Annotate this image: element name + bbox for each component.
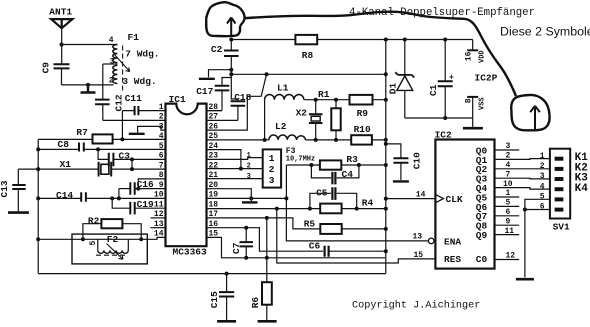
svg-text:C2: C2 <box>211 44 223 55</box>
capacitor C9 <box>54 64 70 85</box>
resistor R1 <box>331 100 340 140</box>
svg-text:5: 5 <box>89 241 98 246</box>
wire C0 stub <box>495 259 520 261</box>
svg-text:13: 13 <box>413 233 423 242</box>
wire R3 row <box>286 164 385 166</box>
svg-text:X2: X2 <box>296 107 308 118</box>
wire Q4 to SV1 pin4 <box>495 188 550 190</box>
svg-text:C5: C5 <box>316 187 328 198</box>
wire IC1 pin12 stub <box>151 217 165 219</box>
svg-text:IC2: IC2 <box>435 130 452 141</box>
hand-drawn arrow in right blob <box>530 106 540 130</box>
svg-text:L2: L2 <box>275 121 287 132</box>
node R4 drop to RES <box>275 207 279 211</box>
svg-text:L1: L1 <box>277 83 289 94</box>
node rail C10 <box>384 142 388 146</box>
wire Q8 stub <box>495 224 520 226</box>
op-amp IC1 MC3363 body <box>166 104 207 247</box>
svg-text:14: 14 <box>416 191 426 200</box>
wire IC1 pin 20 to ground <box>206 189 251 202</box>
power symbol IC2P VSS pin8 <box>467 97 478 127</box>
svg-text:SV1: SV1 <box>553 222 570 233</box>
wire IC1 pin 24 riser <box>206 150 241 169</box>
wire C11 riser to pin4 node <box>121 111 123 140</box>
svg-text:R1: R1 <box>318 89 330 100</box>
wire IC1 pin 15 RES row <box>206 237 385 257</box>
svg-text:Diese 2 Symbole: Diese 2 Symbole <box>500 24 590 38</box>
wire IC1 pin 18 row R4 <box>206 208 386 210</box>
svg-text:CLK: CLK <box>446 194 463 205</box>
capacitor C17 <box>206 86 229 111</box>
node rail CLK <box>384 197 388 201</box>
ENA inverter bubble at IC2 <box>428 238 434 244</box>
ground under R6 <box>258 320 277 323</box>
svg-text:C16: C16 <box>137 179 154 190</box>
node supply C1 <box>443 38 447 42</box>
wire IC1 pin 25 row with L2 <box>206 139 386 141</box>
antenna ANT1 <box>51 19 72 64</box>
node pin19 to ENA drop <box>284 196 288 200</box>
svg-text:10,7MHz: 10,7MHz <box>286 155 315 163</box>
ground at IC1 pin 3 <box>129 133 145 135</box>
node C1 bottom <box>443 116 447 120</box>
crystal X1 <box>18 162 165 177</box>
svg-text:8: 8 <box>159 171 164 180</box>
capacitor C1 electrolytic <box>438 40 453 119</box>
svg-text:C13: C13 <box>0 180 10 197</box>
svg-text:3: 3 <box>540 172 545 181</box>
svg-text:Copyright J.Aichinger: Copyright J.Aichinger <box>352 300 480 312</box>
IC1 pin numbers left 1-14 <box>154 103 164 239</box>
svg-text:C4: C4 <box>342 169 354 180</box>
svg-text:R4: R4 <box>362 198 374 209</box>
svg-text:R5: R5 <box>304 218 316 229</box>
wire supply row with R8 <box>231 39 472 41</box>
wire IC1 pin 2 row <box>103 119 165 121</box>
ground under SV1 <box>516 278 534 281</box>
capacitor C7 <box>240 228 254 258</box>
node pin17 R6 drop <box>265 216 269 220</box>
node rail X1 row <box>36 167 40 171</box>
resistor R7 <box>38 134 165 143</box>
wire IC1 pin 3 to ground <box>138 126 165 132</box>
IC2 output names Q0-Q9 C0 <box>476 145 488 265</box>
ground under C9 <box>81 85 96 93</box>
wire IC1 pin 26 to VCC2 <box>206 74 266 130</box>
svg-text:3: 3 <box>159 122 164 131</box>
svg-text:R10: R10 <box>354 124 371 135</box>
node rail R3 <box>384 163 388 167</box>
filter F3 <box>263 149 281 187</box>
svg-text:R3: R3 <box>346 154 358 165</box>
svg-text:9: 9 <box>159 181 164 190</box>
svg-text:C9: C9 <box>40 62 51 74</box>
svg-text:C19: C19 <box>137 199 154 210</box>
capacitor C2 <box>224 40 239 70</box>
wire C17 C18 stems from C2 node <box>222 74 238 101</box>
diode D1 zener <box>395 40 414 119</box>
power symbol IC2P VDD pin16 <box>467 40 478 51</box>
wire middle rail <box>385 40 387 274</box>
svg-text:3: 3 <box>110 58 115 67</box>
node R1 top <box>334 98 338 102</box>
wire Q9 stub <box>495 234 520 236</box>
node rail R4 <box>384 207 388 211</box>
node pin8 drop on pin9 row <box>136 187 140 191</box>
node C4 loop right <box>357 163 361 167</box>
capacitor C19 <box>112 198 165 214</box>
capacitor C5 <box>310 187 357 208</box>
svg-text:12: 12 <box>154 210 164 219</box>
wire bottom row <box>38 273 386 275</box>
node VCC2 diagonal join <box>265 72 269 76</box>
wire C16 riser to pin10 row <box>118 189 120 199</box>
svg-text:D1: D1 <box>388 82 399 94</box>
wire R4 node drop row <box>277 209 436 263</box>
svg-text:R8: R8 <box>302 50 314 61</box>
wire IC1 pin 14 row <box>38 237 165 239</box>
pin number 7 of F2 <box>107 244 123 260</box>
svg-text:+: + <box>449 74 454 83</box>
wire SV1 pin6 <box>525 209 550 211</box>
svg-text:10: 10 <box>154 191 164 200</box>
svg-text:R9: R9 <box>357 108 369 119</box>
node R1 bottom <box>334 138 338 142</box>
wire IC1 pin13 stub <box>151 227 165 229</box>
node X2 bottom <box>314 138 318 142</box>
wire IC1 pin 19 row <box>206 197 286 199</box>
wire Q2 to SV1 pin2 <box>495 168 550 170</box>
node C7 top <box>244 226 248 230</box>
svg-text:4: 4 <box>540 182 545 191</box>
capacitor C4 <box>311 165 359 184</box>
svg-text:1: 1 <box>269 153 275 164</box>
resistor R5 <box>320 224 341 234</box>
svg-text:C18: C18 <box>234 92 251 103</box>
svg-text:C14: C14 <box>56 190 73 201</box>
wire Q5 stub <box>495 196 520 198</box>
resistor R4 <box>320 204 341 214</box>
svg-text:16: 16 <box>465 51 474 61</box>
wire pin17 drop to R6 node <box>266 218 268 282</box>
svg-text:3 Wdg.: 3 Wdg. <box>122 76 156 87</box>
resistor R6 <box>262 282 272 320</box>
svg-text:C1: C1 <box>428 84 439 96</box>
wire IC1 pin 8 <box>138 179 165 189</box>
svg-text:7 Wdg.: 7 Wdg. <box>125 49 159 60</box>
wire CLK row <box>386 198 436 200</box>
capacitor C3 <box>98 149 165 166</box>
capacitor C8 <box>38 143 165 152</box>
svg-text:8: 8 <box>465 98 474 103</box>
inductor L2 <box>269 135 306 140</box>
svg-text:VSS: VSS <box>479 97 487 110</box>
svg-text:X1: X1 <box>60 159 72 170</box>
node C15 top <box>225 272 229 276</box>
svg-text:1: 1 <box>540 152 545 161</box>
capacitor C14 <box>38 192 165 202</box>
resistor R2 <box>83 219 141 239</box>
resistor R8 <box>295 35 317 44</box>
node C7 bottom <box>244 256 248 260</box>
node antenna junction <box>60 43 64 47</box>
node pin19 ground stem <box>249 196 253 200</box>
node pin24 riser on F3 pin2 row <box>239 167 243 171</box>
wire IC1 pin 17 row to R5 <box>206 218 320 229</box>
resistor R3 <box>320 160 341 169</box>
capacitor C10 <box>386 144 409 180</box>
svg-text:C10: C10 <box>412 152 423 169</box>
node rail R10 <box>384 138 388 142</box>
wire C2 bottom to ground <box>209 70 232 78</box>
svg-text:C7: C7 <box>231 242 242 254</box>
svg-text:MC3363: MC3363 <box>173 246 208 257</box>
wire R3 ENA drop <box>286 165 428 241</box>
wire ground row under antenna <box>62 84 114 86</box>
svg-text:C17: C17 <box>196 86 213 97</box>
svg-text:5: 5 <box>540 193 545 202</box>
node L1 drop on pin25 row <box>263 138 267 142</box>
svg-text:1: 1 <box>247 152 251 160</box>
node supply D1 <box>403 38 407 42</box>
svg-text:13: 13 <box>154 220 164 229</box>
svg-text:6: 6 <box>159 152 164 161</box>
wire pin6 to pin7 link <box>131 159 133 169</box>
svg-text:C3: C3 <box>119 150 131 161</box>
wire L1 row to R9 <box>304 99 386 101</box>
wire R5 right to rail <box>342 228 386 230</box>
node rail VCC2 <box>384 72 388 76</box>
node ground junction <box>86 83 90 87</box>
svg-text:R6: R6 <box>250 297 261 309</box>
ground under C15 <box>217 320 236 323</box>
svg-text:11: 11 <box>154 200 164 209</box>
svg-text:2: 2 <box>269 164 275 175</box>
SV1 pin numbers 1-6 <box>540 152 545 212</box>
node rail pin14 <box>36 237 40 241</box>
svg-text:7: 7 <box>159 161 164 170</box>
IC2 CLK input triangle <box>435 194 443 202</box>
hand-drawn blob symbol left <box>206 2 244 36</box>
wire Q0 stub <box>495 149 520 151</box>
svg-text:F1: F1 <box>128 32 140 43</box>
wire IC1 pin 21 to F3 pin3 <box>206 178 263 180</box>
node VCC2 row start <box>229 72 233 76</box>
node X2 top <box>314 98 318 102</box>
node pin6 row link <box>130 157 134 161</box>
capacitor C18 <box>206 101 245 120</box>
wire Q3 to SV1 pin3 <box>495 177 550 180</box>
F3 internal pin digits 1 2 3 <box>269 153 275 186</box>
svg-text:F2: F2 <box>107 234 119 245</box>
svg-text:C12: C12 <box>114 94 125 111</box>
node R6 top junction <box>265 256 269 260</box>
node SV1 pin6 junction <box>523 208 527 212</box>
svg-text:RES: RES <box>444 254 461 265</box>
ground under IC2P <box>463 127 483 130</box>
svg-text:4: 4 <box>109 36 114 45</box>
wire Q1 to SV1 pin1 <box>495 158 550 161</box>
capacitor C15 <box>219 274 234 320</box>
counter IC2 body <box>435 140 494 269</box>
svg-text:C15: C15 <box>209 291 220 308</box>
wire ground row D1 C1 VSS <box>405 117 473 119</box>
wire Q7 stub <box>495 215 520 217</box>
svg-text:2: 2 <box>159 113 164 122</box>
ground under C13 <box>8 211 29 214</box>
node rail R9 <box>384 98 388 102</box>
svg-text:R7: R7 <box>76 127 88 138</box>
resistor R9 <box>350 95 373 105</box>
node link on pin7 row <box>130 167 134 171</box>
svg-text:C8: C8 <box>58 139 70 150</box>
ground under C10 <box>393 180 409 182</box>
node C2 bottom junction <box>229 68 233 72</box>
svg-text:3: 3 <box>247 173 251 181</box>
svg-text:2: 2 <box>109 77 114 86</box>
svg-text:6: 6 <box>540 203 545 212</box>
svg-text:3: 3 <box>269 175 275 186</box>
F3 pin number texts <box>247 152 251 181</box>
svg-text:Q9: Q9 <box>476 230 488 241</box>
wire L1 left drop <box>264 100 266 140</box>
IC2 right pin numbers <box>503 142 515 260</box>
wire VCC2 row <box>231 70 385 75</box>
svg-text:4: 4 <box>159 132 164 141</box>
svg-text:5: 5 <box>159 142 164 151</box>
wire antenna to F1 pin4 <box>62 44 118 46</box>
capacitor C13 <box>12 169 25 211</box>
capacitor C16 <box>119 182 165 195</box>
svg-text:R2: R2 <box>88 215 100 226</box>
node rail R5 <box>384 227 388 231</box>
ground at pin 20 <box>242 201 258 203</box>
svg-text:1: 1 <box>159 103 164 112</box>
hand-drawn arrow in left blob <box>227 18 236 37</box>
wire IC1 pin 23 to F3 pin1 <box>206 158 263 160</box>
node rail C6 <box>384 249 388 253</box>
node C5 loop left <box>308 207 312 211</box>
svg-text:2: 2 <box>247 162 251 170</box>
node C11 riser on pin4 row <box>120 137 124 141</box>
svg-text:IC2P: IC2P <box>475 73 498 84</box>
capacitor C6 <box>325 246 386 257</box>
hand-drawn blob symbol right <box>511 95 549 130</box>
svg-text:VDD: VDD <box>479 50 487 63</box>
node supply junction under left blob <box>229 38 233 42</box>
svg-text:C11: C11 <box>125 93 142 104</box>
svg-text:IC1: IC1 <box>169 94 186 105</box>
svg-text:15: 15 <box>414 251 424 260</box>
crystal X2 <box>309 100 323 140</box>
node C16 riser <box>117 196 121 200</box>
svg-text:14: 14 <box>154 230 164 239</box>
filter F2 <box>72 234 147 264</box>
node C19 riser <box>110 196 114 200</box>
node C3 branch on pin5 row <box>96 147 100 151</box>
node rail supply <box>384 38 388 42</box>
wire IC1 pin 16 to C6 <box>206 228 323 252</box>
wire F1 tap to C12 <box>102 64 104 100</box>
hand-drawn curve to right blob <box>244 12 516 96</box>
svg-text:4-Kanal-Doppelsuper-Empfänger: 4-Kanal-Doppelsuper-Empfänger <box>349 7 535 19</box>
inductor L1 <box>265 94 304 99</box>
wire Q6 stub <box>495 205 520 207</box>
wire left rail <box>37 139 39 273</box>
node rail C14 <box>36 196 40 200</box>
ground near C2 <box>199 78 215 80</box>
capacitor C11 <box>122 106 164 115</box>
resistor R10 <box>351 135 372 144</box>
capacitor C12 <box>95 100 110 121</box>
node R2 right <box>139 237 143 241</box>
svg-text:C6: C6 <box>309 240 321 251</box>
wire IC1 pin 22 to F3 pin2 <box>206 168 263 170</box>
node rail C8 <box>36 147 40 151</box>
IC1 pin numbers right 28-15 <box>209 103 219 239</box>
node R2 left <box>81 237 85 241</box>
svg-text:ENA: ENA <box>444 236 461 247</box>
connector SV1 <box>550 149 570 219</box>
svg-text:K4: K4 <box>575 183 589 195</box>
wire IC1 pin 28 stub <box>206 110 222 112</box>
svg-text:2: 2 <box>540 162 545 171</box>
wire SV1 pin5 to ground <box>525 199 550 277</box>
svg-text:ANT1: ANT1 <box>49 7 72 18</box>
svg-text:C0: C0 <box>476 254 488 265</box>
transformer F1 <box>103 45 130 91</box>
node C5 loop right <box>355 207 359 211</box>
node C4 loop left <box>309 163 313 167</box>
